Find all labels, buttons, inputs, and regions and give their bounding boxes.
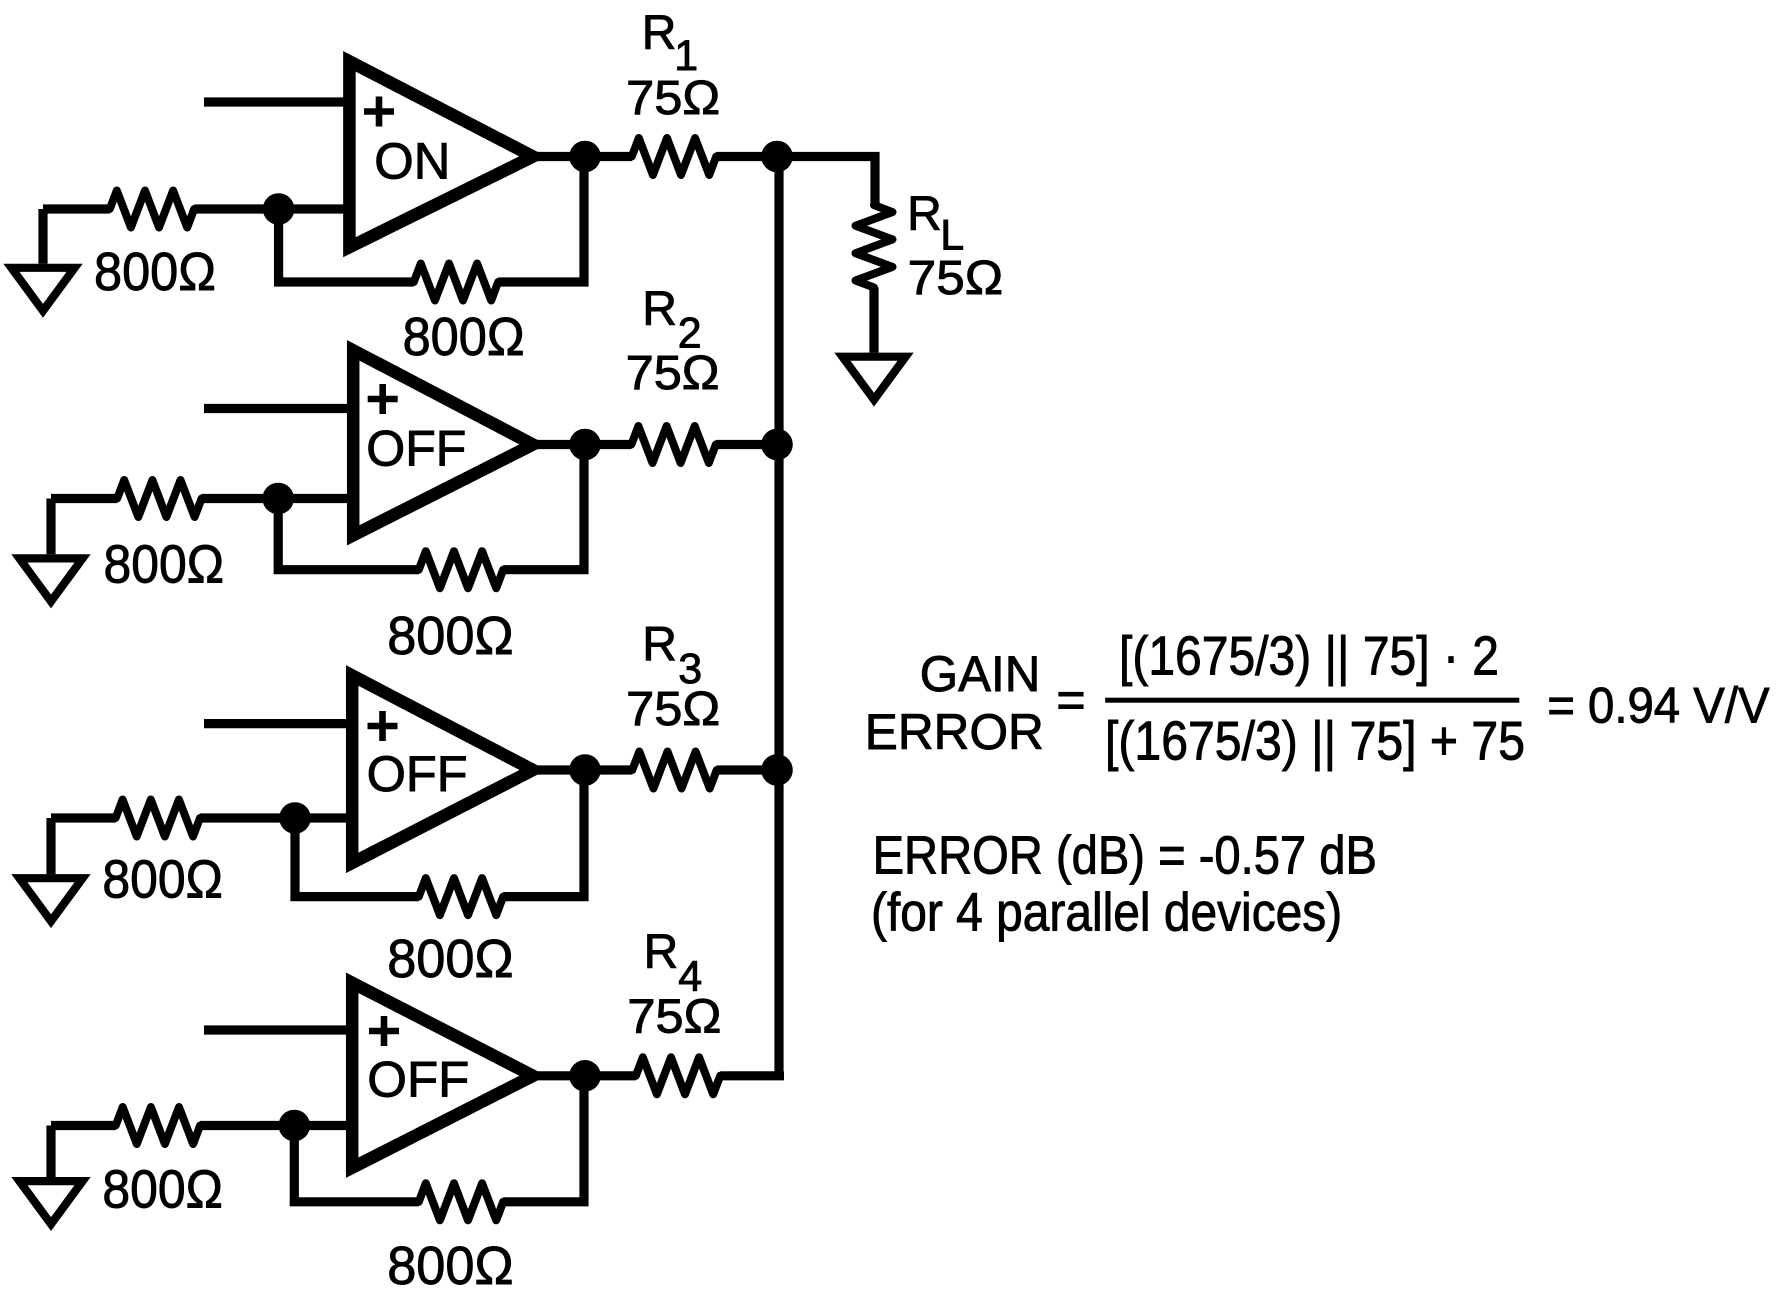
svg-text:(for 4 parallel devices): (for 4 parallel devices) xyxy=(871,882,1342,942)
svg-text:= 0.94 V/V: = 0.94 V/V xyxy=(1547,677,1770,733)
svg-text:75Ω: 75Ω xyxy=(627,991,721,1044)
svg-text:75Ω: 75Ω xyxy=(626,347,720,400)
svg-text:[(1675/3) || 75] + 75: [(1675/3) || 75] + 75 xyxy=(1105,710,1525,772)
svg-text:75Ω: 75Ω xyxy=(908,252,1004,305)
svg-text:R: R xyxy=(644,926,679,979)
svg-text:ON: ON xyxy=(374,132,450,189)
svg-text:R: R xyxy=(642,283,677,336)
svg-text:[(1675/3) || 75] · 2: [(1675/3) || 75] · 2 xyxy=(1119,625,1499,687)
svg-text:75Ω: 75Ω xyxy=(626,72,720,125)
svg-text:800Ω: 800Ω xyxy=(387,606,513,666)
svg-text:GAIN: GAIN xyxy=(920,646,1041,702)
svg-text:75Ω: 75Ω xyxy=(626,683,720,736)
svg-text:800Ω: 800Ω xyxy=(387,929,513,989)
svg-text:800Ω: 800Ω xyxy=(387,1236,513,1291)
svg-text:800Ω: 800Ω xyxy=(403,307,525,367)
svg-text:ERROR: ERROR xyxy=(865,704,1044,760)
svg-text:ERROR (dB) = -0.57 dB: ERROR (dB) = -0.57 dB xyxy=(873,826,1377,886)
svg-text:800Ω: 800Ω xyxy=(102,1160,222,1220)
svg-text:OFF: OFF xyxy=(367,1052,469,1108)
svg-text:R: R xyxy=(642,7,677,60)
svg-text:800Ω: 800Ω xyxy=(104,534,225,594)
svg-text:=: = xyxy=(1056,672,1085,728)
svg-text:OFF: OFF xyxy=(367,746,468,802)
svg-text:800Ω: 800Ω xyxy=(102,850,222,910)
svg-text:OFF: OFF xyxy=(366,421,466,477)
svg-text:800Ω: 800Ω xyxy=(94,242,216,302)
svg-text:R: R xyxy=(642,619,677,672)
svg-text:R: R xyxy=(907,188,942,241)
